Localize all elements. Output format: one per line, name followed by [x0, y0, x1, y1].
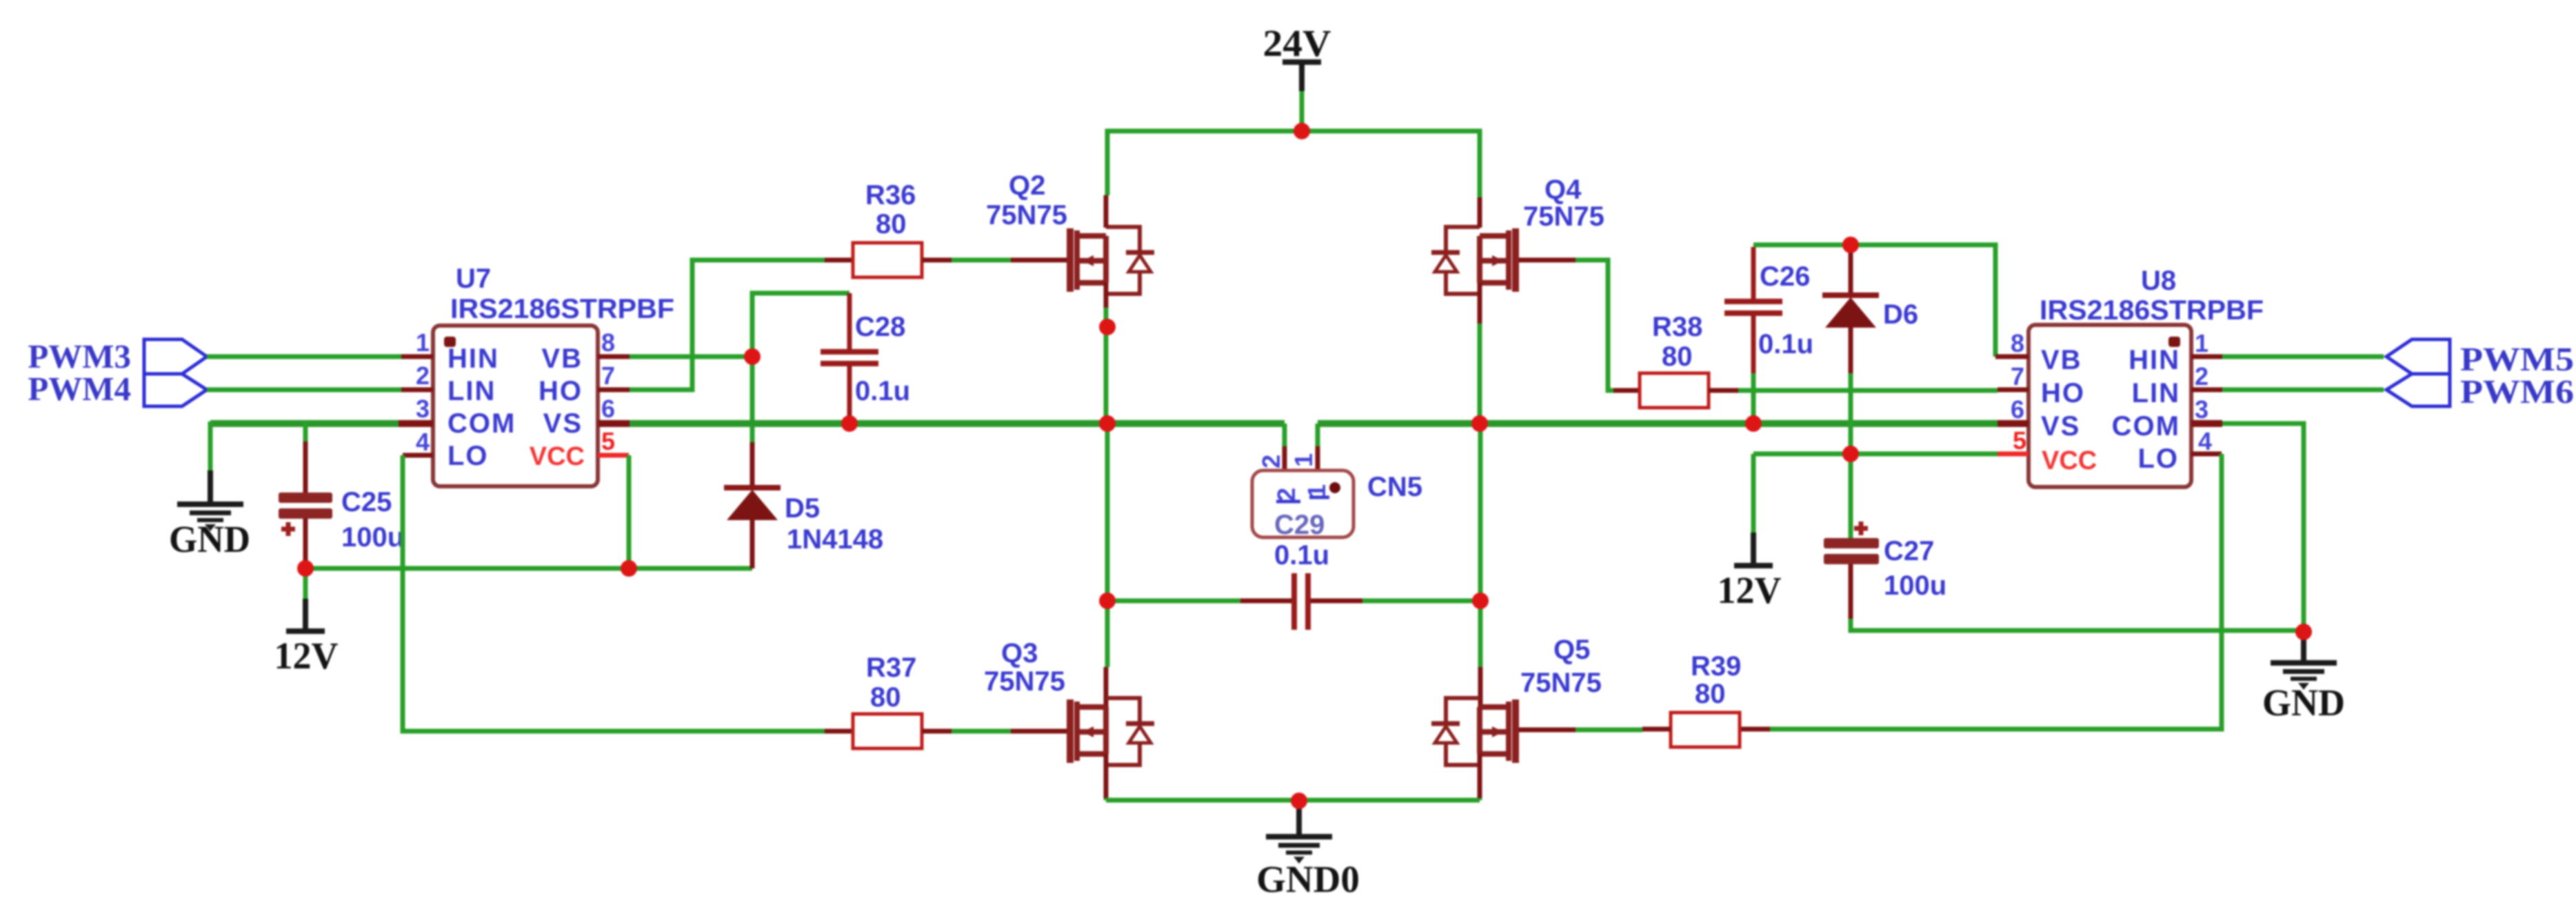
transistor Q2: [986, 170, 1154, 294]
wire 12V left VCC row: [305, 566, 752, 571]
svg-text:R39: R39: [1691, 651, 1741, 682]
svg-text:24V: 24V: [1263, 22, 1331, 64]
svg-text:6: 6: [2011, 395, 2024, 424]
ground GND left lead: [208, 470, 213, 501]
diode D6: [1822, 292, 1918, 330]
wire COM right to GND: [2222, 424, 2304, 632]
wire phase down to C29 row: [1105, 424, 1110, 601]
pin 6 VS: [598, 420, 630, 427]
node junction Q2 source: [1099, 319, 1116, 335]
resistor R39: [1642, 651, 1770, 747]
transistor Q4: [1431, 175, 1604, 294]
port PWM6: [2386, 372, 2574, 410]
wire LO to R37: [403, 455, 825, 731]
svg-text:Q2: Q2: [1009, 170, 1045, 201]
wire GND0 bottom rail: [1106, 798, 1480, 803]
svg-text:HIN: HIN: [2129, 345, 2180, 375]
svg-text:80: 80: [870, 682, 901, 713]
wire Q4 drain lead: [1478, 197, 1482, 228]
svg-text:5: 5: [2013, 426, 2026, 455]
wire LO right to R39: [1770, 454, 2222, 729]
svg-text:C25: C25: [341, 487, 392, 517]
wire C29 right lead: [1311, 599, 1362, 604]
resistor R38: [1613, 312, 1738, 408]
pin 3 COM: [399, 420, 433, 427]
svg-text:D5: D5: [785, 493, 820, 524]
svg-text:C29: C29: [1274, 510, 1325, 540]
op-amp U8 body: [2029, 266, 2264, 487]
wire HO to R36: [630, 260, 825, 390]
node junction 24V rail: [1294, 123, 1310, 139]
capacitor C27: [1824, 454, 1946, 601]
svg-text:75N75: 75N75: [984, 666, 1065, 697]
svg-text:2: 2: [1272, 488, 1300, 501]
wire phase B down to C29: [1478, 424, 1483, 601]
svg-text:12V: 12V: [1718, 569, 1782, 611]
svg-text:PWM6: PWM6: [2460, 372, 2574, 410]
svg-text:0.1u: 0.1u: [1274, 540, 1329, 570]
svg-text:1: 1: [1289, 453, 1318, 467]
svg-text:0.1u: 0.1u: [1758, 329, 1813, 359]
svg-text:1: 1: [416, 328, 430, 357]
node junction C29 right: [1472, 593, 1489, 609]
svg-text:100u: 100u: [341, 522, 404, 553]
pin 7 HO: [598, 388, 630, 392]
svg-text:80: 80: [1695, 679, 1726, 709]
svg-text:VS: VS: [543, 408, 583, 439]
svg-text:2: 2: [1257, 455, 1285, 468]
wire LIN to port PWM6: [2222, 388, 2384, 392]
wire R38 to U8 HO: [1738, 388, 1998, 393]
resistor R36: [825, 180, 952, 277]
ground GND right: [2262, 632, 2345, 724]
pin 8 VB right IC: [1995, 355, 2029, 359]
svg-text:C27: C27: [1884, 536, 1934, 566]
pin 3 COM right IC: [2191, 420, 2222, 427]
svg-text:6: 6: [601, 395, 615, 423]
svg-text:VS: VS: [2041, 411, 2080, 441]
wire C29 left lead: [1107, 599, 1240, 604]
power 12V left: [274, 568, 339, 677]
resistor R37: [825, 653, 952, 748]
transistor Q3: [984, 638, 1154, 765]
power 12V right: [1718, 454, 1782, 611]
node junction C28/VS rail: [841, 415, 858, 432]
node junction VCC: [621, 560, 637, 577]
wire PWM4 to U7 pin2: [207, 388, 401, 392]
svg-text:R38: R38: [1652, 312, 1702, 342]
svg-text:LO: LO: [2137, 444, 2179, 474]
pin 1 HIN right IC: [2191, 355, 2222, 359]
svg-text:COM: COM: [2112, 411, 2180, 441]
svg-text:C28: C28: [855, 312, 905, 342]
wire Q2 source to VS rail: [1104, 308, 1109, 424]
svg-text:C26: C26: [1760, 261, 1810, 292]
port PWM4: [28, 370, 207, 408]
capacitor C29: [1291, 573, 1311, 630]
svg-text:Q5: Q5: [1553, 635, 1590, 665]
wire COM down to GND: [208, 421, 213, 470]
power 24V: [1263, 22, 1331, 131]
wire VB junction down to D5: [750, 357, 755, 442]
wire Q3 source lead: [1104, 754, 1109, 798]
svg-text:4: 4: [2198, 427, 2212, 455]
capacitor C26: [1724, 247, 1813, 421]
wire R36 to Q2 gate: [952, 258, 1011, 263]
transistor Q5: [1431, 635, 1602, 765]
op-amp U7 body: [433, 263, 674, 486]
wire Q2 drain lead: [1104, 195, 1109, 228]
node junction C26/VS rail: [1745, 415, 1762, 432]
svg-text:1: 1: [2195, 329, 2208, 357]
node junction D6/C27: [1842, 446, 1859, 462]
pin 6 VS right IC: [1998, 420, 2029, 427]
wire C25 bottom lead: [303, 519, 308, 568]
wire COM net thick: [210, 420, 399, 427]
svg-text:1N4148: 1N4148: [787, 524, 883, 555]
svg-text:80: 80: [876, 209, 907, 239]
pin 4 LO: [403, 453, 433, 458]
pin 8 VB: [598, 355, 630, 359]
node junction VS rail Q4: [1471, 415, 1488, 432]
svg-text:COM: COM: [447, 408, 516, 439]
capacitor C25: [279, 487, 404, 553]
svg-text:3: 3: [2195, 395, 2208, 424]
svg-text:2: 2: [2195, 362, 2208, 390]
wire R39 to Q5 gate: [1576, 728, 1642, 733]
wire Q4 source lead: [1478, 283, 1482, 324]
svg-text:GND: GND: [169, 518, 250, 560]
svg-text:PWM4: PWM4: [28, 370, 131, 408]
node junction VB/D5: [744, 348, 761, 365]
node junction GND0: [1291, 793, 1307, 809]
port PWM5: [2386, 339, 2574, 378]
pin 4 LO right IC: [2191, 452, 2222, 457]
wire C27 bottom to GND: [1849, 564, 1853, 619]
svg-text:LIN: LIN: [447, 376, 496, 406]
svg-text:Q4: Q4: [1544, 175, 1582, 205]
svg-text:3: 3: [416, 395, 430, 423]
wire Q5 source lead: [1478, 754, 1482, 798]
wire VS rail right thick: [1318, 420, 1998, 427]
wire R37 to Q3 gate: [952, 729, 1011, 734]
svg-text:VCC: VCC: [2042, 446, 2097, 475]
svg-text:VCC: VCC: [530, 442, 585, 471]
svg-text:HO: HO: [2041, 378, 2085, 408]
wire VCC right row: [1753, 452, 1998, 457]
wire HIN to port PWM5: [2222, 355, 2384, 359]
svg-text:HIN: HIN: [447, 344, 499, 374]
svg-text:HO: HO: [539, 376, 583, 406]
svg-text:VB: VB: [2041, 345, 2082, 375]
wire Q4 gate to R38: [1519, 258, 1576, 263]
svg-text:8: 8: [2011, 329, 2024, 357]
svg-text:R37: R37: [866, 653, 916, 683]
node junction D6 top: [1842, 237, 1859, 253]
svg-text:8: 8: [601, 328, 615, 357]
diode D5 leads: [750, 442, 755, 568]
svg-text:80: 80: [1662, 341, 1693, 372]
svg-text:75N75: 75N75: [986, 200, 1067, 230]
svg-text:D6: D6: [1883, 299, 1918, 330]
svg-text:2: 2: [416, 361, 430, 390]
wire Q2 source lead: [1104, 283, 1109, 308]
connector CN5: [1252, 453, 1422, 537]
node junction C29 left: [1099, 593, 1116, 609]
svg-text:CN5: CN5: [1367, 472, 1422, 502]
svg-text:75N75: 75N75: [1520, 668, 1602, 698]
svg-text:100u: 100u: [1884, 570, 1946, 601]
svg-text:IRS2186STRPBF: IRS2186STRPBF: [450, 294, 674, 324]
svg-text:75N75: 75N75: [1523, 201, 1604, 232]
svg-text:GND: GND: [2262, 682, 2345, 724]
svg-text:LIN: LIN: [2132, 378, 2180, 408]
wire Q4 source to VS rail: [1478, 324, 1482, 424]
pin 7 HO right IC: [1998, 388, 2029, 392]
svg-text:Q3: Q3: [1001, 638, 1038, 668]
diode D5: [724, 485, 883, 555]
node junction VS rail Q2: [1099, 415, 1116, 432]
svg-text:12V: 12V: [274, 635, 339, 677]
wire VS rail left thick: [630, 420, 1285, 427]
svg-text:U8: U8: [2141, 266, 2176, 296]
svg-text:R36: R36: [865, 180, 916, 210]
wire C25 top lead: [303, 422, 308, 441]
ground GND left: [177, 501, 243, 531]
connector CN5 pins: [1285, 424, 1318, 446]
wire PWM3 to U7 pin1: [207, 355, 401, 359]
port PWM3: [28, 337, 207, 375]
svg-text:5: 5: [601, 427, 615, 455]
svg-text:U7: U7: [456, 263, 491, 294]
node junction C25/12V: [297, 560, 314, 577]
svg-text:7: 7: [601, 361, 615, 390]
wire VB junction up to C28: [752, 293, 849, 359]
pin 5 VCC right IC: [1998, 452, 2029, 457]
wire down to Q5 drain: [1478, 601, 1483, 667]
ground GND0: [1256, 801, 1360, 900]
wire 24V top rail: [1107, 131, 1480, 197]
capacitor C28: [821, 293, 910, 421]
svg-text:GND0: GND0: [1256, 858, 1360, 900]
pin 2 LIN right IC: [2191, 388, 2222, 392]
svg-text:4: 4: [416, 428, 430, 456]
svg-text:LO: LO: [447, 441, 489, 471]
svg-text:VB: VB: [541, 344, 583, 374]
diode D6 leads: [1849, 245, 1853, 373]
pin 2 LIN: [401, 388, 433, 392]
wire VB to junction: [630, 355, 752, 359]
node junction GND right: [2295, 624, 2312, 640]
pin 5 VCC: [598, 453, 629, 458]
wire VCC down: [627, 455, 632, 568]
pin 1 HIN: [401, 355, 433, 359]
wire Q3 source to rail: [1104, 798, 1109, 800]
svg-text:IRS2186STRPBF: IRS2186STRPBF: [2040, 295, 2264, 326]
svg-text:7: 7: [2011, 362, 2024, 390]
wire VB right top: [1753, 245, 1995, 357]
svg-text:0.1u: 0.1u: [855, 376, 910, 406]
wire down to Q3 drain: [1105, 601, 1110, 667]
